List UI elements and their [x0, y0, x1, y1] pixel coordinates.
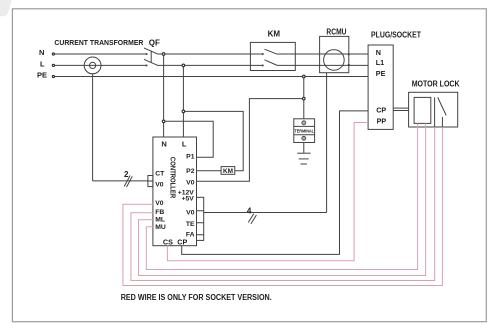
svg-text:L: L [40, 60, 45, 69]
svg-text:N: N [39, 48, 44, 57]
svg-text:CS: CS [163, 238, 173, 247]
svg-text:N: N [161, 139, 166, 148]
svg-text:KM: KM [268, 30, 281, 39]
svg-text:V0: V0 [186, 209, 195, 216]
svg-text:N: N [376, 48, 381, 57]
svg-text:MOTOR LOCK: MOTOR LOCK [412, 80, 460, 89]
svg-text:PP: PP [377, 116, 387, 125]
svg-text:ML: ML [155, 217, 165, 224]
svg-text:KM: KM [223, 168, 233, 175]
svg-text:PE: PE [376, 69, 386, 78]
svg-text:4: 4 [247, 206, 252, 215]
svg-text:P2: P2 [186, 168, 195, 175]
svg-text:CONTROLLER: CONTROLLER [169, 157, 178, 199]
svg-text:CURRENT TRANSFORMER: CURRENT TRANSFORMER [54, 38, 144, 47]
svg-text:PLUG/SOCKET: PLUG/SOCKET [371, 30, 421, 39]
svg-text:+5V: +5V [182, 196, 195, 203]
svg-text:QF: QF [149, 39, 160, 48]
svg-text:CT: CT [155, 171, 165, 178]
svg-text:CP: CP [177, 238, 187, 247]
svg-text:FB: FB [155, 209, 164, 216]
svg-text:V0: V0 [155, 200, 164, 207]
svg-text:2: 2 [124, 170, 129, 179]
svg-text:V0: V0 [186, 180, 195, 187]
svg-text:RCMU: RCMU [326, 28, 346, 37]
svg-text:L1: L1 [376, 58, 384, 67]
svg-text:CP: CP [376, 105, 386, 114]
svg-text:MU: MU [155, 224, 166, 231]
svg-text:V0: V0 [155, 182, 164, 189]
svg-text:RED WIRE IS ONLY FOR SOCKET VE: RED WIRE IS ONLY FOR SOCKET VERSION. [121, 293, 272, 302]
svg-text:TERMINAL: TERMINAL [294, 129, 314, 134]
svg-text:L: L [182, 139, 187, 148]
svg-text:P1: P1 [186, 154, 195, 161]
svg-text:PE: PE [37, 71, 47, 80]
svg-text:TE: TE [186, 221, 195, 228]
